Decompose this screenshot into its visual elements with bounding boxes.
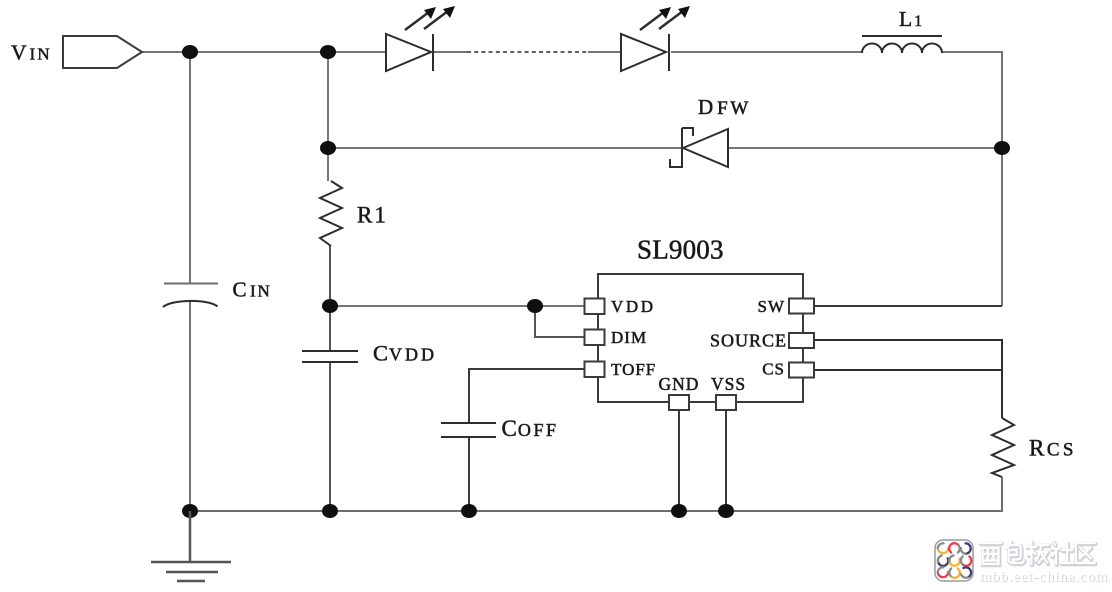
svg-text:DFW: DFW [698, 95, 751, 119]
node bottom rail GND [671, 504, 687, 518]
capacitor CVDD [302, 351, 358, 362]
ground [151, 511, 231, 581]
pin SOURCE [789, 333, 814, 348]
node at DIM branch [527, 299, 543, 313]
wire TOFF row from COFF [469, 369, 585, 422]
resistor R1 [320, 181, 342, 246]
node at VIN junction [182, 45, 198, 59]
svg-text:VSS: VSS [711, 374, 746, 394]
pin VDD [585, 299, 605, 315]
pin GND [669, 395, 689, 410]
LED D1 arrowheads [424, 7, 436, 19]
wire VSS pin down [725, 409, 727, 511]
svg-text:CVDD: CVDD [373, 341, 437, 366]
pin CS [789, 363, 814, 378]
wire LED1 cathode to dashes [434, 51, 468, 53]
LED D2 [621, 11, 683, 72]
wire SW pin to right rail [813, 305, 1002, 307]
pin DIM [585, 330, 605, 346]
wire DFW cathode side to right rail [728, 147, 1002, 149]
svg-text:COFF: COFF [502, 416, 559, 441]
wire LED2 cathode to L1 [671, 51, 862, 53]
wire VIN node down to CIN [189, 52, 191, 284]
svg-text:GND: GND [659, 374, 700, 394]
svg-text:RCS: RCS [1029, 435, 1077, 460]
wire DIM branch [535, 306, 585, 337]
node at VDD row left [322, 299, 338, 313]
svg-text:TOFF: TOFF [611, 360, 656, 379]
wire COFF bottom to rail [468, 437, 470, 512]
wire RCS bottom to rail [190, 477, 1002, 511]
svg-text:CS: CS [762, 360, 785, 379]
svg-text:R1: R1 [357, 203, 388, 228]
wire top rail from VIN to LED1 [142, 51, 386, 53]
node at DFW right junction [994, 141, 1010, 155]
pin VSS [716, 395, 736, 410]
watermark text white pass [980, 542, 1095, 564]
capacitor CIN [163, 284, 218, 308]
wire SOURCE pin right then down to RCS [813, 340, 1002, 418]
LED D2 arrowheads [659, 7, 671, 19]
wire dashes to LED2 [588, 51, 621, 53]
diode DFW (schottky) [670, 128, 728, 168]
svg-text:CIN: CIN [233, 277, 272, 301]
wire DFW row [328, 147, 682, 149]
node at DFW left junction [320, 141, 336, 155]
wire dashed LED string continuation [467, 51, 588, 53]
svg-text:mbb.eet-china.com: mbb.eet-china.com [980, 569, 1108, 585]
watermark logo [935, 540, 973, 581]
wire top node down through DFW node to R1 [327, 52, 329, 181]
svg-text:SL9003: SL9003 [637, 235, 724, 265]
wire CIN to bottom rail [189, 300, 191, 512]
wire L1 to top-right corner and down to SW [941, 52, 1002, 306]
wire CVDD bottom to bottom rail [329, 362, 331, 512]
wire R1 bottom to VDD node [329, 246, 331, 352]
resistor RCS [992, 418, 1014, 477]
wire VDD row from R1 node to VDD pin [330, 305, 585, 307]
wire CS pin to RCS top [813, 369, 1002, 371]
wire GND pin down [678, 409, 680, 511]
pin TOFF [585, 362, 605, 378]
svg-text:VIN: VIN [11, 41, 52, 65]
node bottom rail CIN [182, 504, 198, 518]
LED D1 [386, 11, 448, 72]
capacitor COFF [441, 423, 496, 437]
IC U1 SL9003 body [598, 274, 803, 402]
node bottom rail VSS [718, 504, 734, 518]
pin SW [789, 299, 814, 314]
watermark text shadow pass [981, 543, 1096, 565]
svg-text:DIM: DIM [611, 328, 647, 347]
svg-text:VDD: VDD [611, 297, 656, 316]
node at LED branch [320, 45, 336, 59]
svg-text:SOURCE: SOURCE [710, 330, 787, 350]
input connector VIN [63, 36, 142, 68]
svg-text:SW: SW [758, 297, 786, 316]
node bottom rail COFF [461, 504, 477, 518]
inductor L1 [862, 36, 942, 53]
node bottom rail CVDD [322, 504, 338, 518]
